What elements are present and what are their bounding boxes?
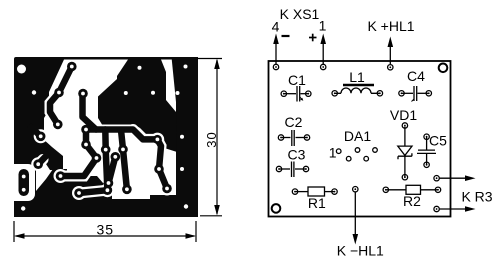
svg-text:VD1: VD1	[390, 107, 417, 123]
svg-text:C5: C5	[429, 133, 447, 149]
svg-text:C3: C3	[288, 147, 306, 163]
svg-text:K +HL1: K +HL1	[367, 18, 414, 34]
svg-text:1: 1	[329, 145, 337, 161]
svg-text:1: 1	[319, 18, 327, 34]
svg-text:30: 30	[204, 131, 219, 147]
svg-text:C1: C1	[288, 72, 306, 88]
svg-text:DA1: DA1	[344, 128, 371, 144]
svg-text:C2: C2	[285, 114, 303, 130]
svg-text:K R3: K R3	[461, 189, 492, 205]
svg-text:C4: C4	[407, 68, 425, 84]
svg-text:R2: R2	[403, 193, 421, 209]
svg-text:K XS1: K XS1	[280, 6, 320, 22]
svg-text:35: 35	[97, 222, 115, 238]
svg-text:L1: L1	[349, 69, 365, 85]
svg-text:K −HL1: K −HL1	[337, 243, 384, 259]
svg-text:4: 4	[272, 19, 280, 35]
svg-text:R1: R1	[308, 195, 326, 211]
